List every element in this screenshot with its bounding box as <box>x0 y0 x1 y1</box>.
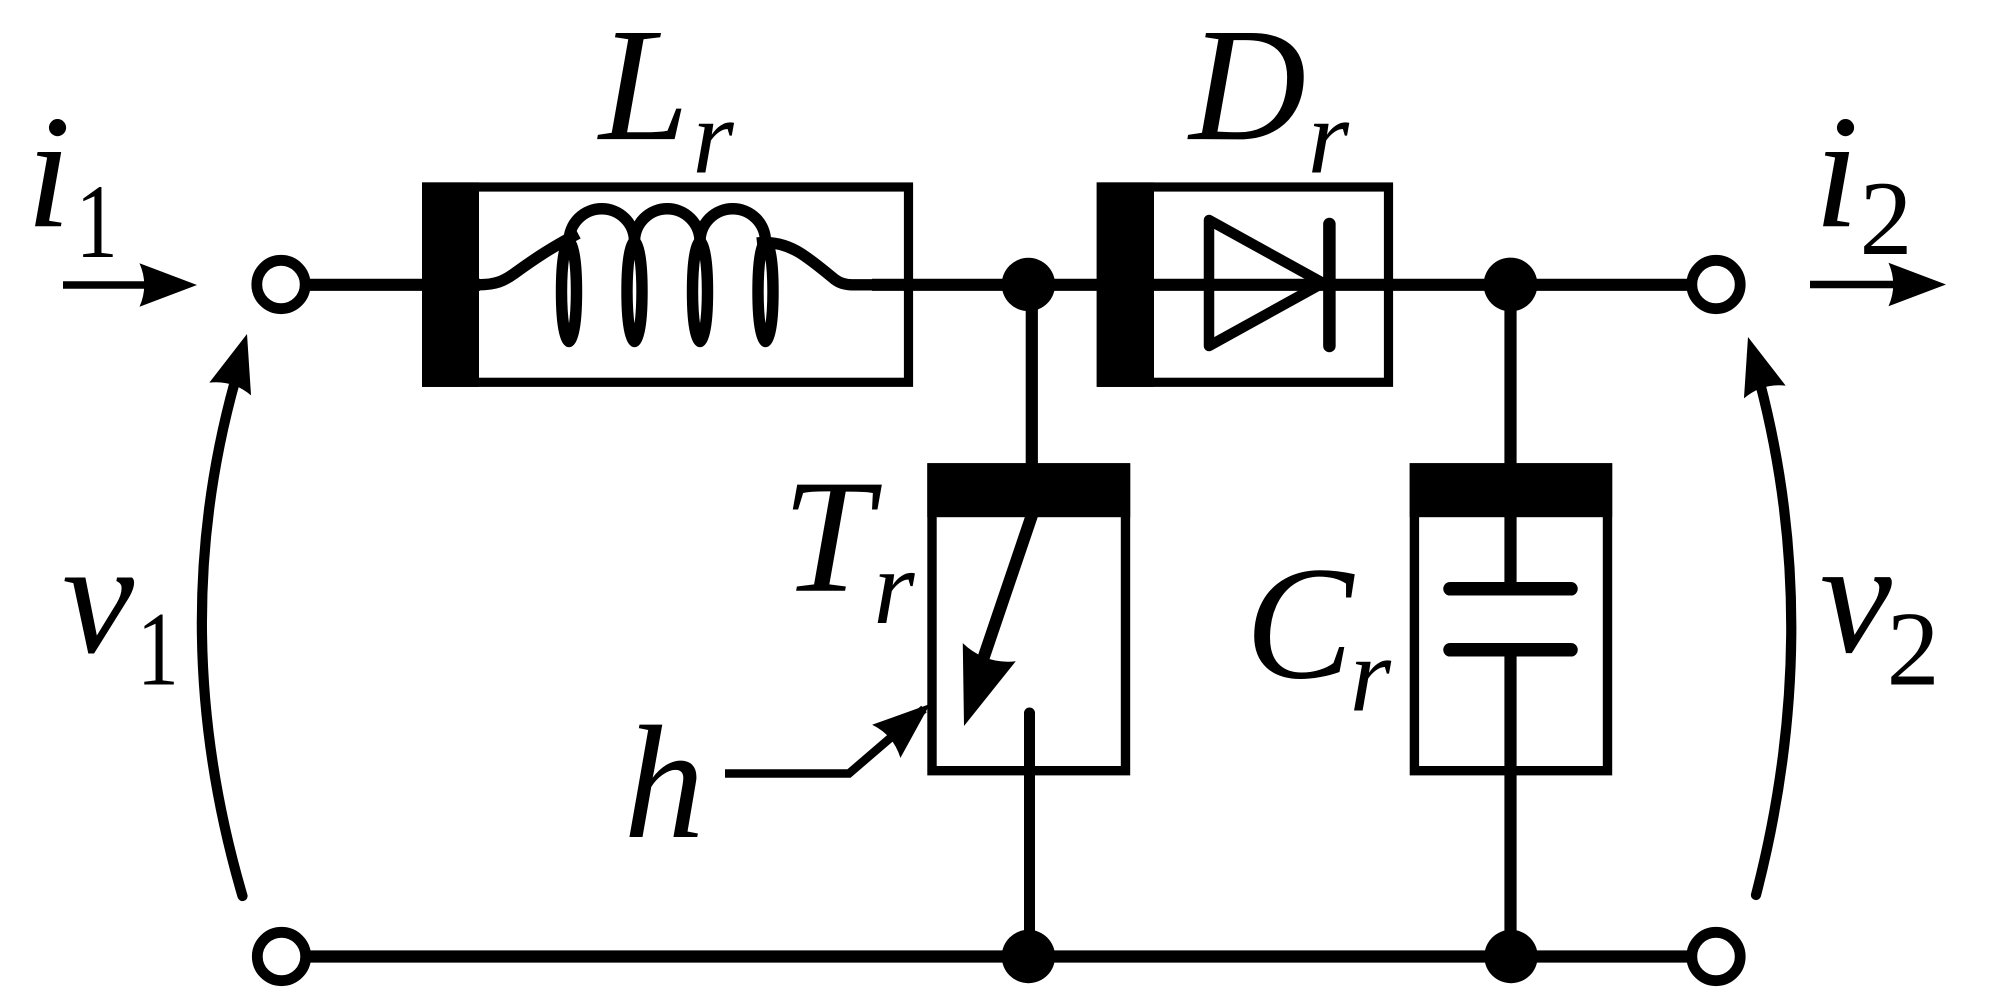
svg-text:D: D <box>1187 0 1306 175</box>
inductor coil loop 2 <box>627 242 642 342</box>
svg-text:h: h <box>624 694 705 873</box>
svg-text:v: v <box>1820 509 1892 688</box>
capacitor bottom wire <box>1504 650 1516 957</box>
capacitor bottom plate <box>1450 643 1571 657</box>
inductor coil hump 3 <box>700 209 766 242</box>
inductor coil loop 4 <box>758 242 773 342</box>
terminal bottom-left <box>257 932 305 980</box>
svg-text:r: r <box>1308 78 1350 195</box>
svg-text:C: C <box>1245 535 1355 714</box>
inductor coil loop 3 <box>693 242 708 342</box>
diode D_r box outline <box>1101 187 1388 382</box>
junction node A (top, T_r) <box>1002 258 1055 311</box>
current arrow i2 head <box>1889 263 1947 307</box>
current arrow i1 head <box>140 263 198 307</box>
junction node B (top, C_r) <box>1484 258 1538 312</box>
thyristor switch arrowhead <box>938 643 1016 735</box>
gate arrowhead <box>872 687 944 757</box>
voltage v2 arc <box>1752 354 1791 895</box>
thyristor switch arrow line <box>976 515 1032 680</box>
svg-text:1: 1 <box>137 590 179 707</box>
wire: bottom rail <box>281 950 1716 962</box>
thyristor bottom stub <box>1024 713 1035 957</box>
inductor coil hump 1 <box>569 209 635 242</box>
svg-text:i: i <box>1814 83 1859 262</box>
thyristor T_r box outline <box>932 468 1126 771</box>
diode D_r terminal band <box>1097 182 1154 387</box>
junction node D (bottom, C_r) <box>1484 930 1537 983</box>
svg-text:r: r <box>693 78 735 195</box>
thyristor T_r top band <box>927 463 1130 517</box>
svg-text:2: 2 <box>1860 160 1913 277</box>
capacitor C_r box outline <box>1414 468 1607 771</box>
inductor coil hump 2 <box>635 209 701 242</box>
wire: node B to C_r <box>1504 285 1516 589</box>
gate label h lead line <box>725 709 924 774</box>
inductor coil loop 1 <box>562 242 577 342</box>
svg-text:2: 2 <box>1887 590 1940 707</box>
terminal top-left <box>257 260 305 308</box>
voltage v1 arc <box>202 354 243 896</box>
svg-text:i: i <box>26 83 71 262</box>
voltage v1 arrowhead <box>209 328 268 396</box>
diode triangle <box>1209 220 1323 346</box>
junction node C (bottom, T_r) <box>1002 930 1055 983</box>
inductor coil entry <box>478 234 578 285</box>
current arrow i2 shaft <box>1810 281 1898 289</box>
svg-text:r: r <box>873 529 915 646</box>
voltage v2 arrowhead <box>1727 331 1786 399</box>
svg-text:r: r <box>1350 616 1392 733</box>
wire: top rail left segment (terminal to L_r) <box>281 279 480 291</box>
inductor coil exit <box>757 243 914 285</box>
terminal bottom-right <box>1692 932 1740 980</box>
capacitor C_r top band <box>1410 463 1613 517</box>
svg-text:1: 1 <box>76 163 118 280</box>
svg-text:L: L <box>597 0 689 175</box>
diode cathode bar <box>1323 224 1336 346</box>
current arrow i1 shaft <box>63 281 150 289</box>
svg-text:v: v <box>62 509 134 688</box>
inductor L_r box outline <box>427 187 909 382</box>
wire: top rail right segment (coil exit to right terminal) <box>872 279 1716 291</box>
wire: node A to T_r <box>1026 285 1038 517</box>
capacitor top plate <box>1450 582 1571 596</box>
terminal top-right <box>1692 260 1740 308</box>
inductor L_r terminal band <box>422 182 479 387</box>
svg-text:T: T <box>782 448 882 627</box>
